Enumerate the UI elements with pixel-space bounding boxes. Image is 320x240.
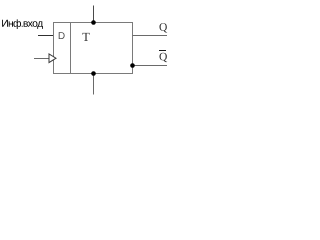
label "Инф.вход" (information input) xyxy=(2,19,43,29)
wire output Q-bar xyxy=(133,65,168,67)
flip-flop body DD1 xyxy=(54,23,133,74)
clock dynamic-input triangle xyxy=(49,54,56,63)
junction dot Q-bar xyxy=(130,63,135,68)
wire D-input xyxy=(38,35,54,37)
label T (trigger) xyxy=(82,33,89,41)
pin label Q xyxy=(159,23,167,32)
divider of D-section xyxy=(70,23,72,74)
junction dot top xyxy=(91,20,96,25)
wire top (set input) xyxy=(93,6,95,23)
wire output Q xyxy=(133,35,168,37)
wire clock input xyxy=(34,58,49,60)
pin label Q-bar xyxy=(159,53,167,62)
junction dot bottom xyxy=(91,71,96,76)
overline of Q-bar xyxy=(159,50,166,52)
pin label D xyxy=(59,32,65,39)
wire bottom (reset input) xyxy=(93,74,95,95)
